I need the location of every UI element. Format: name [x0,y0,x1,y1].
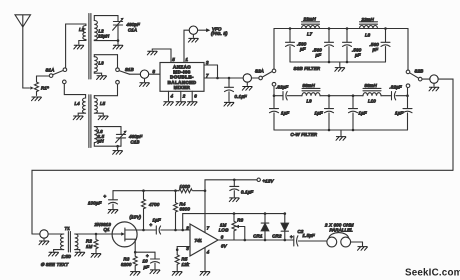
junction (244.8,240) [244,239,247,242]
svg-text:10: 10 [143,259,149,264]
svg-text:1µF: 1µF [315,110,323,115]
svg-text:+12V: +12V [263,179,275,184]
diode CR1 [261,214,269,240]
inductor L4 [78,95,85,115]
svg-text:100µF: 100µF [88,200,102,205]
terminal +12V [257,178,260,181]
svg-text:+: + [146,253,149,258]
resistor R2 1M [94,234,98,253]
switch S2A [252,69,276,86]
pin 3 wire [177,246,190,248]
inductor L6 [94,127,121,147]
wire audio long run [32,170,453,234]
ground R5 [172,272,182,276]
wire S1A upper to L1 [66,24,84,68]
SSB bottom rail [290,61,386,63]
pin 1 [184,30,189,62]
svg-text:CR1: CR1 [253,234,263,239]
junction (353,130) [352,129,355,132]
switch S1A [49,68,66,84]
svg-text:1.5µF: 1.5µF [303,233,315,238]
svg-text:.82µF: .82µF [276,84,288,89]
svg-text:µH: µH [98,139,105,144]
capacitor ssb C3 [343,29,352,63]
svg-text:6800: 6800 [180,206,191,211]
junction (118,40.6) [117,39,120,42]
inductor L10 88mH [363,88,381,95]
wire S1B to connector J2 [129,73,140,75]
svg-text:C1A: C1A [128,27,137,32]
ground phones [362,242,364,246]
svg-text:460pF: 460pF [127,22,141,27]
ground L5 [98,116,108,120]
pin 7 [204,77,218,79]
capacitor cw 1uF in [270,96,279,130]
wire pins 3-7 join [217,65,219,78]
wire S2A lower to CW filter [273,86,275,96]
wire S1B lower to L5 [94,84,117,96]
connector J3 VFO [189,26,197,34]
junction (234.3,179.8) [233,179,236,182]
junction (143.5,190.7) [142,189,145,192]
variable capacitor C1B [116,127,127,147]
svg-text:LOG: LOG [219,227,229,232]
ground J2 [144,78,146,81]
svg-text:SeekIC.com: SeekIC.com [405,268,460,279]
capacitor 100uF [109,191,118,209]
capacitor C2 1.5uF [294,236,327,246]
svg-text:L4: L4 [75,101,81,106]
pin 7 [204,191,206,233]
capacitor ssb C4 [381,29,390,63]
junction (284.8,213.6) [284,212,287,215]
supply rail left [113,190,179,192]
junction (177.2,249.7) [176,248,179,251]
svg-text:0.1µF: 0.1µF [235,94,247,99]
ground 0.1uF supply [229,198,239,202]
wire S1A lower to L4 [64,84,85,95]
rail +12V [205,180,257,191]
svg-text:S1B: S1B [125,67,134,72]
ground J4 [246,82,248,85]
svg-text:(FIG. 5): (FIG. 5) [211,31,228,36]
switch S2B [406,70,422,87]
wire J2 to mixer pin 8 [149,73,160,75]
svg-text:+: + [150,223,153,228]
feedback wire [183,214,285,230]
junction (353,95.7) [352,94,355,97]
svg-text:1µF: 1µF [359,110,367,115]
wire audio feed right edge [438,79,453,170]
svg-text:4700: 4700 [149,202,160,207]
svg-text:L3: L3 [99,61,105,66]
junction (205,190.7) [204,189,207,192]
capacitor cw 1uF out [403,96,412,130]
switch S1B [116,55,130,84]
svg-text:R5: R5 [182,257,188,262]
headphones 2x600 ohm [327,233,363,247]
pin 6 [191,91,193,100]
junction (265,213.6) [264,212,267,215]
svg-text:+: + [290,234,293,239]
svg-text:R1*: R1* [41,86,49,91]
capacitor 10uF [151,252,160,269]
junction (385.5,28.5) [384,27,387,30]
ground T1 primary [49,252,59,256]
ground 100uF [108,210,118,214]
svg-text:µF: µF [300,46,306,51]
ground SSB [339,62,341,67]
svg-text:L1: L1 [79,27,85,32]
junction (182.7,230) [181,229,184,232]
svg-text:741: 741 [195,238,203,243]
inductor L1 [79,24,86,44]
svg-text:S1A: S1A [46,67,55,72]
capacitor 0.1uF mixer out [225,78,234,101]
mixer U1 ANZAC MD-108 [160,63,204,92]
svg-text:µF: µF [373,47,379,52]
svg-text:µF: µF [144,265,150,270]
svg-text:C-W FILTER: C-W FILTER [291,132,318,137]
junction (347,62) [346,61,349,64]
wire T1 to Q1 gate [75,233,121,235]
svg-text:2: 2 [182,94,186,99]
svg-text:1M: 1M [86,244,93,249]
inductor L2 [94,16,118,41]
svg-text:12k: 12k [182,262,190,267]
CW bottom rail [274,129,408,131]
wire cw out to S2B lower [407,88,409,96]
ground 10uF [150,270,160,274]
capacitor cw .82uF left [274,92,302,100]
SSB top rail [274,28,408,30]
connector J4 [243,74,251,82]
junction (329,95.7) [328,94,331,97]
ground R2 [91,254,101,258]
junction (265,240) [264,239,267,242]
wire SSB rail to S2B [407,29,409,71]
resistor 4700 [142,191,146,230]
junction (347,28.5) [346,27,349,30]
pin 4 [204,248,206,271]
junction (143.5,230) [142,229,145,232]
junction (229,78) [228,77,231,80]
transformer core T-bottom [89,95,91,148]
svg-text:88mH: 88mH [365,83,378,88]
resistor R5 12k [175,247,179,271]
ground CW [340,130,342,136]
svg-text:✱ SEE TEXT: ✱ SEE TEXT [41,262,69,267]
svg-text:22mH: 22mH [361,17,375,22]
svg-text:1µF: 1µF [395,110,403,115]
svg-text:1:50: 1:50 [62,254,72,259]
ground J5 [433,83,435,86]
svg-text:1000: 1000 [180,184,191,189]
svg-text:(10V): (10V) [130,214,142,219]
junction (175.5,190.7) [174,189,177,192]
wire VFO arrow [198,29,208,31]
capacitor cw 1uF mid-left [325,96,334,130]
wire S2B to connector J5 [422,78,430,80]
junction (329,28.5) [328,27,331,30]
pin 3 [204,64,218,66]
ground R1 [32,97,42,101]
capacitor cw 1uF mid-right [349,96,358,130]
wire source to 10uF [135,251,155,253]
svg-text:C1B: C1B [131,139,140,144]
inductor L9 88mH [302,88,320,95]
svg-text:2: 2 [185,225,189,230]
svg-text:8200: 8200 [121,262,132,267]
svg-text:L5: L5 [100,101,106,106]
ground J6 [43,238,45,240]
svg-text:S2A: S2A [255,69,264,74]
ground tank2 [117,146,119,149]
antenna [15,15,31,27]
svg-text:µF: µF [316,53,322,58]
capacitor 0.1uF supply [230,180,239,197]
svg-text:.82µF: .82µF [390,84,402,89]
capacitor ssb C2 [325,29,334,63]
resistor R1 [30,76,38,96]
svg-text:1µF: 1µF [153,217,161,222]
resistor R3 8200 [133,252,137,270]
junction (217.5,78) [216,77,219,80]
capacitor 1uF coupling [144,226,191,234]
ground L1 [74,45,84,49]
junction (117.6,146.2) [116,145,119,148]
transistor Q1 2N3819 [112,222,143,252]
svg-text:22mH: 22mH [303,16,317,21]
pin 4 [168,91,170,100]
connector J5 [430,75,438,83]
svg-text:SSB FILTER: SSB FILTER [294,66,321,71]
wire antenna feed [23,27,30,88]
svg-text:CR2: CR2 [272,234,282,239]
potentiometer R6 1M LOG [232,214,245,240]
junction (175.5,230) [174,229,177,232]
svg-text:L8: L8 [365,32,371,37]
transformer T1 [54,232,80,253]
junction (274,95.7) [273,94,276,97]
resistor R4 6800 [174,191,178,230]
junction (407.5,95.7) [406,94,409,97]
svg-text:1µF: 1µF [281,110,289,115]
ground L4 [73,116,83,120]
ground pin4 [200,272,210,276]
svg-text:0.1µF: 0.1µF [241,189,253,194]
pin 2 [180,91,182,100]
pin 6 output wire [218,239,294,241]
wire mixer out [218,77,244,79]
svg-text:R6: R6 [237,218,243,223]
svg-text:S2B: S2B [415,69,424,74]
svg-text:Q1: Q1 [104,227,111,232]
wire S2A to SSB rail [273,29,275,70]
capacitor cw .82uF right [381,92,408,100]
junction (329,62) [328,61,331,64]
ground tank1 [117,41,119,45]
ground pin5 [151,49,153,50]
ground R3 [130,272,140,276]
svg-text:L7: L7 [307,31,313,36]
svg-text:MIXER: MIXER [174,85,191,90]
transformer core T-top [89,14,91,80]
resistor 1000 [179,189,205,193]
ground T1 secondary [75,252,85,256]
svg-text:PARALLEL: PARALLEL [330,227,354,232]
op-amp U2 741 [190,224,218,256]
svg-text:88mH: 88mH [303,83,316,88]
wire J6 to T1 [48,233,64,235]
capacitor ssb C1 [286,29,295,63]
ground L3 [97,76,107,80]
connector J6 audio in [32,233,40,235]
junction (135.2,252.2) [134,251,137,254]
variable capacitor C1A [113,16,124,41]
svg-text:6V: 6V [221,244,228,249]
junction (290,28.5) [289,27,292,30]
ground 0.1uF [224,102,234,106]
junction (329,130) [328,129,331,132]
svg-text:L10: L10 [368,98,376,103]
junction (96,234) [95,233,98,236]
svg-text:L9: L9 [307,98,313,103]
inductor L8 22mH [360,22,378,29]
connector J2 [140,70,148,78]
pin 5 [152,49,171,63]
ground J3 [192,34,194,37]
svg-text:+: + [104,194,107,199]
junction (284.8,240) [284,239,287,242]
wire R1 to S1A [37,75,50,77]
wire cw mid [320,95,363,97]
svg-text:µF: µF [355,53,361,58]
svg-text:22µH: 22µH [97,34,110,39]
junction (234,213.6) [233,212,236,215]
svg-text:T1: T1 [65,226,71,231]
inductor L5 [94,96,103,115]
inductor L3 [94,55,117,75]
inductor L7 22mH [302,22,320,29]
diode CR2 [281,214,288,240]
